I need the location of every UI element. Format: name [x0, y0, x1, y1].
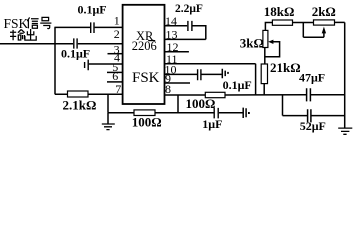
label 0.1uF C1: [78, 3, 107, 17]
label 21kOhm: [270, 60, 301, 75]
potentiometer RP1 wiper arrow: [265, 42, 279, 57]
svg-text:2kΩ: 2kΩ: [312, 4, 336, 19]
svg-text:52μF: 52μF: [300, 119, 326, 133]
wire FSK output line to pin 2: [0, 43, 73, 45]
wire 52uF to rail: [311, 115, 344, 117]
capacitor C6 0.1uF plates: [222, 69, 225, 79]
wire bottom bus to 100ohm: [108, 112, 134, 114]
wire cap to pin 2: [78, 43, 123, 45]
pin number labels right: [165, 14, 179, 96]
wire 52uF branch riser: [282, 95, 284, 116]
resistor R2 100ohm body: [134, 110, 155, 116]
wire cap to pin 1: [95, 26, 123, 28]
resistor R4 21k stub top: [264, 48, 266, 65]
capacitor C3 plates at pin 4: [85, 60, 89, 71]
capacitor stub plates right of 1uF: [243, 108, 246, 118]
svg-text:2.1kΩ: 2.1kΩ: [63, 98, 97, 113]
label 47uF: [299, 70, 325, 84]
glyph 信: [27, 17, 38, 28]
wire 100ohm to 47uF: [225, 94, 306, 96]
wire riser from bus to pin8 row: [177, 95, 179, 113]
svg-text:100Ω: 100Ω: [186, 96, 216, 111]
label 3kOhm: [240, 36, 264, 51]
capacitor C9 52uF plates: [308, 109, 311, 122]
capacitor C5 plates on pin10: [198, 69, 201, 80]
resistor R4 21k body: [261, 64, 267, 84]
label 52uF: [300, 119, 326, 133]
label 2.1kOhm: [63, 98, 97, 113]
pin 9 stub: [165, 82, 191, 84]
svg-text:FSK: FSK: [132, 70, 160, 86]
svg-text:21kΩ: 21kΩ: [270, 60, 301, 75]
label 100ohm R3: [186, 96, 216, 111]
wire pin 8 row: [165, 94, 206, 96]
svg-text:0.1μF: 0.1μF: [61, 47, 90, 61]
pin 6 stub: [107, 81, 123, 83]
wire pin 4: [89, 63, 123, 65]
wire junction drop to ground bus: [107, 94, 109, 113]
ground G2 right: [338, 128, 352, 134]
capacitor C7 1uF plates: [214, 108, 218, 119]
svg-text:0.1μF: 0.1μF: [223, 78, 252, 92]
svg-text:7: 7: [115, 82, 121, 96]
wire cap to corner and down: [193, 26, 206, 40]
label 0.1uF C6: [223, 78, 252, 92]
wire 2k right to rail corner: [335, 21, 345, 23]
capacitor C8 47uF plates: [307, 88, 311, 101]
capacitor C4 2.2uF plates: [188, 21, 192, 31]
wire 100ohm to 1uF cap: [155, 112, 214, 114]
wire right vertical rail: [344, 22, 346, 128]
glyph 输: [10, 30, 25, 41]
wire 21k bottom stub: [263, 84, 265, 96]
svg-text:3kΩ: 3kΩ: [240, 36, 264, 51]
label 18kOhm: [264, 4, 295, 19]
wire cap to cap: [202, 73, 222, 75]
potentiometer RP1 3k body: [263, 30, 268, 47]
capacitor C1 0.1uF plates (pin1 series cap): [91, 22, 94, 33]
wire 1uF to end cap: [219, 112, 243, 114]
label 1uF: [202, 117, 222, 131]
resistor R1 2.1k row wire: [55, 93, 123, 95]
svg-text:47μF: 47μF: [299, 70, 325, 84]
label FSK信号 output text: [4, 16, 29, 31]
svg-text:8: 8: [165, 82, 171, 96]
wire 3k top stub to top rail corner: [265, 23, 272, 31]
pin number labels left: [112, 13, 121, 96]
wire 18k to 2k: [293, 22, 314, 24]
svg-text:2: 2: [114, 27, 120, 41]
label 100ohm R2: [132, 115, 162, 130]
resistor R3 100ohm body: [205, 92, 225, 97]
resistor R5 18k body: [272, 20, 292, 25]
pin 3 stub: [108, 53, 123, 55]
svg-text:18kΩ: 18kΩ: [264, 4, 295, 19]
op IC U1 XR-2206 box: [123, 5, 165, 104]
label 0.1uF C2: [61, 47, 90, 61]
potentiometer RP2 2k body: [314, 20, 335, 25]
wire riser pin11 to pin8 row: [255, 64, 257, 95]
glyph 号: [40, 17, 51, 28]
svg-text:2.2μF: 2.2μF: [175, 3, 203, 15]
svg-text:1: 1: [114, 13, 120, 27]
svg-text:0.1μF: 0.1μF: [78, 3, 107, 17]
label 2kOhm: [312, 4, 336, 19]
wire pin 14: [165, 25, 188, 27]
label 2.2uF: [175, 3, 203, 15]
svg-text:1μF: 1μF: [202, 117, 222, 131]
resistor R1 2.1k body: [68, 91, 89, 97]
pin 12 stub: [165, 51, 189, 53]
wire pin 13: [165, 38, 206, 40]
wire 52uF row left: [283, 115, 308, 117]
wire pin 10: [165, 73, 198, 75]
ground G1: [107, 113, 109, 124]
potentiometer RP2 wiper arrow: [303, 22, 324, 37]
wire 47uF to right bus: [311, 94, 345, 96]
svg-text:FSK: FSK: [4, 16, 29, 31]
pin 5 stub: [107, 71, 123, 73]
wire pin 1 from branch: [54, 26, 90, 28]
svg-text:100Ω: 100Ω: [132, 115, 162, 130]
glyph 出: [25, 29, 36, 40]
capacitor C2 0.1uF plates (pin2 series cap): [74, 38, 77, 48]
wire pin 11 to right riser: [165, 63, 256, 65]
wire vertical FSK branch: [54, 27, 56, 94]
